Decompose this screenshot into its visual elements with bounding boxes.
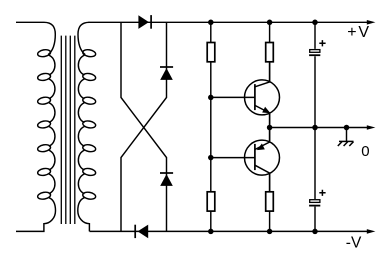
svg-text:+V: +V xyxy=(347,24,371,41)
svg-text:0: 0 xyxy=(361,143,369,160)
svg-text:-V: -V xyxy=(346,234,362,251)
